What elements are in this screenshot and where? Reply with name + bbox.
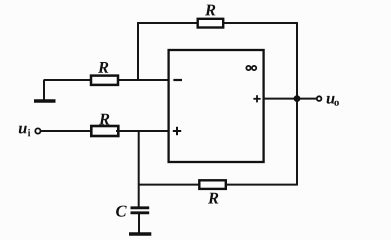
value label R of resistor R4: [208, 193, 218, 204]
op-amp U1 non-inverting input pin mark (+): [173, 127, 181, 135]
resistor R4 (bottom feedback resistor): [199, 180, 226, 189]
wire: u_i terminal to R3: [41, 130, 92, 132]
node label u_i: [19, 126, 31, 137]
node A (inverting input node, junction of R1 and top feedback): [137, 79, 139, 81]
op-amp U1 infinity gain mark: [246, 66, 256, 70]
capacitor C1: [129, 208, 151, 234]
op-amp U1: [169, 50, 264, 162]
resistor R2 (top feedback resistor): [198, 19, 224, 28]
resistor R1 (inverting input series resistor): [91, 76, 118, 85]
wire: vertical capacitor branch from node B down to capacitor C: [138, 131, 140, 207]
wire: right vertical from top feedback down through output node to bottom feedback: [296, 22, 298, 185]
wire: top feedback loop horizontal: [137, 22, 298, 24]
wire: R3 to non-inverting input node B: [116, 130, 170, 132]
op-amp U1 inverting input pin mark (-): [173, 79, 182, 81]
resistor R3 (non-inverting input series resistor): [91, 126, 118, 136]
node D (output junction dot): [294, 95, 301, 102]
wire: ground to R1 (inverting input resistor): [44, 79, 93, 81]
terminal u_o (output open circle): [317, 96, 322, 101]
terminal u_i (input open circle): [35, 128, 40, 133]
wire: bottom feedback loop horizontal: [139, 184, 298, 186]
node C-junction (bottom feedback tap on capacitor branch): [138, 184, 140, 186]
value label R of resistor R2: [205, 5, 215, 16]
node label u_o: [327, 96, 339, 106]
node B (non-inverting input node, junction to capacitor branch): [138, 130, 140, 132]
wire: op-amp output to u_o terminal: [264, 98, 317, 100]
op-amp U1 output polarity mark (+): [253, 95, 260, 102]
wire: top feedback loop vertical up from node A: [137, 22, 139, 80]
value label R of resistor R1: [98, 62, 108, 73]
value label C of capacitor C1: [116, 206, 127, 217]
value label R of resistor R3: [99, 114, 109, 125]
wire: R1 to inverting input node A: [116, 79, 170, 81]
ground: [34, 80, 56, 101]
